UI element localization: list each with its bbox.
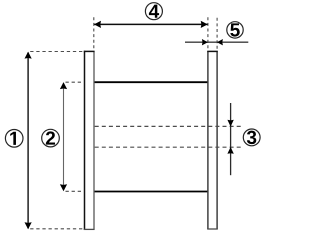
extension dashed line dim2 bottom: [66, 190, 84, 192]
right flange top edge: [207, 50, 218, 52]
balloon 2 circle: [42, 129, 60, 147]
dimension 1 arrow bottom: [25, 222, 32, 229]
dimension 4 line: [94, 23, 207, 25]
balloon 1 digit: [10, 132, 16, 145]
dimension 1 shaft: [27, 53, 29, 229]
dimension 2 arrow bottom: [60, 184, 67, 191]
extension dashed vertical dim4 right dim5 left: [207, 17, 209, 50]
dimension 5 line: [185, 41, 248, 43]
dimension 5 arrow pointing left: [217, 39, 223, 45]
balloon 4 digit: [149, 5, 159, 18]
dimension 3 arrow up: [227, 147, 233, 154]
balloon 3 circle: [243, 129, 260, 146]
dimension 4 arrow right: [201, 21, 208, 28]
core dashed centre line lower: [95, 146, 241, 148]
dimension 2 arrow top: [60, 82, 67, 89]
dimension 3 arrow down: [227, 120, 233, 127]
left flange right edge: [93, 51, 95, 229]
balloon 3 digit: [247, 131, 256, 144]
dimension 4 arrow left: [94, 21, 101, 28]
right flange left edge: [207, 51, 209, 229]
balloon 1 circle: [5, 130, 23, 148]
extension dashed vertical dim4 left: [93, 17, 95, 50]
left flange bottom edge: [84, 228, 95, 230]
extension dashed vertical dim5 right: [216, 18, 218, 51]
dimension 3 shaft: [230, 103, 232, 175]
extension dashed line dim2 top: [66, 81, 84, 83]
balloon 5 circle: [227, 22, 243, 38]
extension dashed line dim1 bottom: [30, 228, 84, 230]
dimension 1 arrow top: [25, 52, 32, 59]
extension dashed line dim1 top: [30, 51, 84, 53]
left flange left edge: [84, 51, 86, 230]
core dashed centre line upper: [95, 125, 241, 127]
dimension 2 shaft: [63, 83, 65, 190]
balloon 2 digit: [46, 131, 55, 144]
bottom winding line: [95, 191, 208, 193]
right flange right edge: [216, 51, 218, 229]
top winding line: [95, 81, 208, 83]
left flange top edge: [84, 50, 95, 52]
dimension 5 arrow pointing right: [202, 39, 208, 45]
balloon 4 circle: [145, 3, 162, 20]
balloon 5 digit: [230, 23, 239, 36]
right flange bottom edge: [207, 228, 218, 230]
